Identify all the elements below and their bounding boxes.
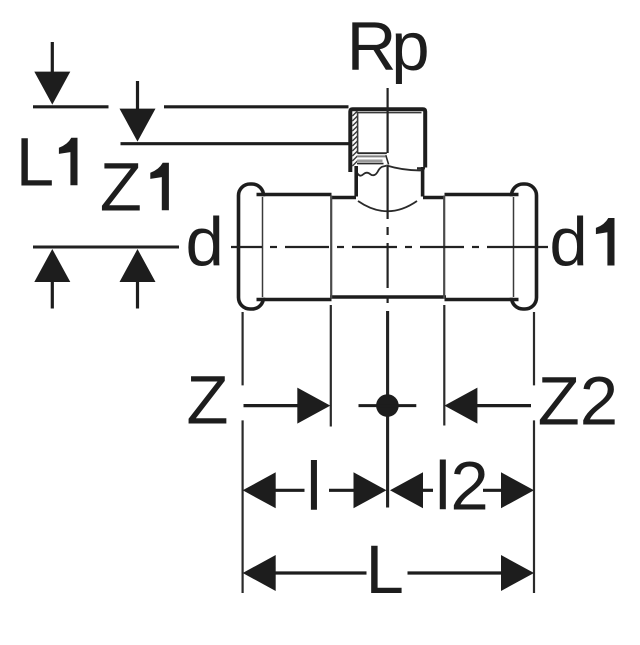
left press socket bead bbox=[239, 184, 264, 309]
thread bore inner wall line bbox=[357, 112, 359, 154]
svg-text:d: d bbox=[549, 204, 587, 281]
break squiggle on branch neck bbox=[356, 166, 386, 176]
branch neck right wall bbox=[421, 167, 425, 197]
svg-text:Z: Z bbox=[100, 148, 142, 225]
dimension L right arrow bbox=[408, 555, 535, 591]
thread hatching bbox=[352, 111, 357, 166]
dimension l right arrow bbox=[329, 472, 387, 508]
right bead-cylinder junction line bbox=[513, 197, 515, 297]
dimension L1 down arrow bbox=[34, 42, 70, 105]
dimension Z line and arrow bbox=[244, 388, 331, 424]
left extension line below fitting bbox=[242, 312, 244, 593]
Z1 reference line bbox=[121, 142, 349, 145]
Z1 up arrow at centreline bbox=[120, 249, 156, 309]
dimension L left arrow bbox=[243, 555, 367, 591]
thread bore bottom line bbox=[358, 152, 387, 154]
dimension l2 right arrow bbox=[483, 472, 534, 508]
L1 reference line at branch top level bbox=[33, 105, 109, 108]
svg-text:Z: Z bbox=[186, 361, 228, 438]
left socket step line bbox=[330, 196, 332, 299]
horizontal centreline dash-dot through fitting bbox=[231, 246, 548, 248]
dimension Z2 arrow and line bbox=[444, 388, 531, 424]
branch neck left wall bbox=[354, 166, 358, 197]
right extension line below fitting bbox=[533, 312, 535, 593]
branch centre dot bbox=[359, 394, 417, 417]
svg-text:l: l bbox=[306, 448, 321, 525]
svg-text:Z2: Z2 bbox=[538, 362, 619, 439]
svg-text:L: L bbox=[16, 123, 54, 200]
dimension l2 left arrow bbox=[390, 472, 433, 508]
svg-text:L: L bbox=[366, 531, 404, 608]
L1 reference line right segment bbox=[164, 105, 349, 108]
branch ring inner top line bbox=[357, 112, 422, 114]
tube end band upper bbox=[357, 155, 385, 157]
vertical branch centreline dash-dot bbox=[387, 88, 389, 303]
right press socket bead bbox=[512, 184, 537, 309]
L1 up arrow at centreline bbox=[34, 249, 70, 309]
dimension Z1 down arrow bbox=[120, 81, 156, 142]
svg-text:d: d bbox=[186, 204, 224, 281]
horizontal centreline left solid segment bbox=[33, 246, 179, 249]
right socket step line bbox=[443, 196, 445, 299]
saddle arc where branch meets body bbox=[358, 201, 417, 211]
tube end dark line bbox=[357, 163, 384, 165]
tube end band lower bbox=[357, 159, 383, 162]
dimension l left arrow bbox=[243, 472, 305, 508]
left socket cylinder bbox=[251, 195, 332, 300]
branch weld seam right half bbox=[386, 165, 422, 170]
branch threaded ring Rp outline bbox=[350, 109, 425, 172]
tube end chamfer bbox=[386, 155, 389, 164]
left step extension line bbox=[330, 305, 332, 427]
svg-text:l2: l2 bbox=[435, 448, 489, 525]
vertical branch centreline solid extension below body bbox=[386, 311, 389, 508]
centre body section bbox=[330, 198, 446, 298]
right step extension line bbox=[443, 305, 445, 426]
right socket cylinder bbox=[445, 195, 525, 300]
svg-text:p: p bbox=[391, 8, 429, 85]
svg-text:R: R bbox=[347, 8, 397, 85]
left bead-cylinder junction line bbox=[262, 197, 264, 297]
